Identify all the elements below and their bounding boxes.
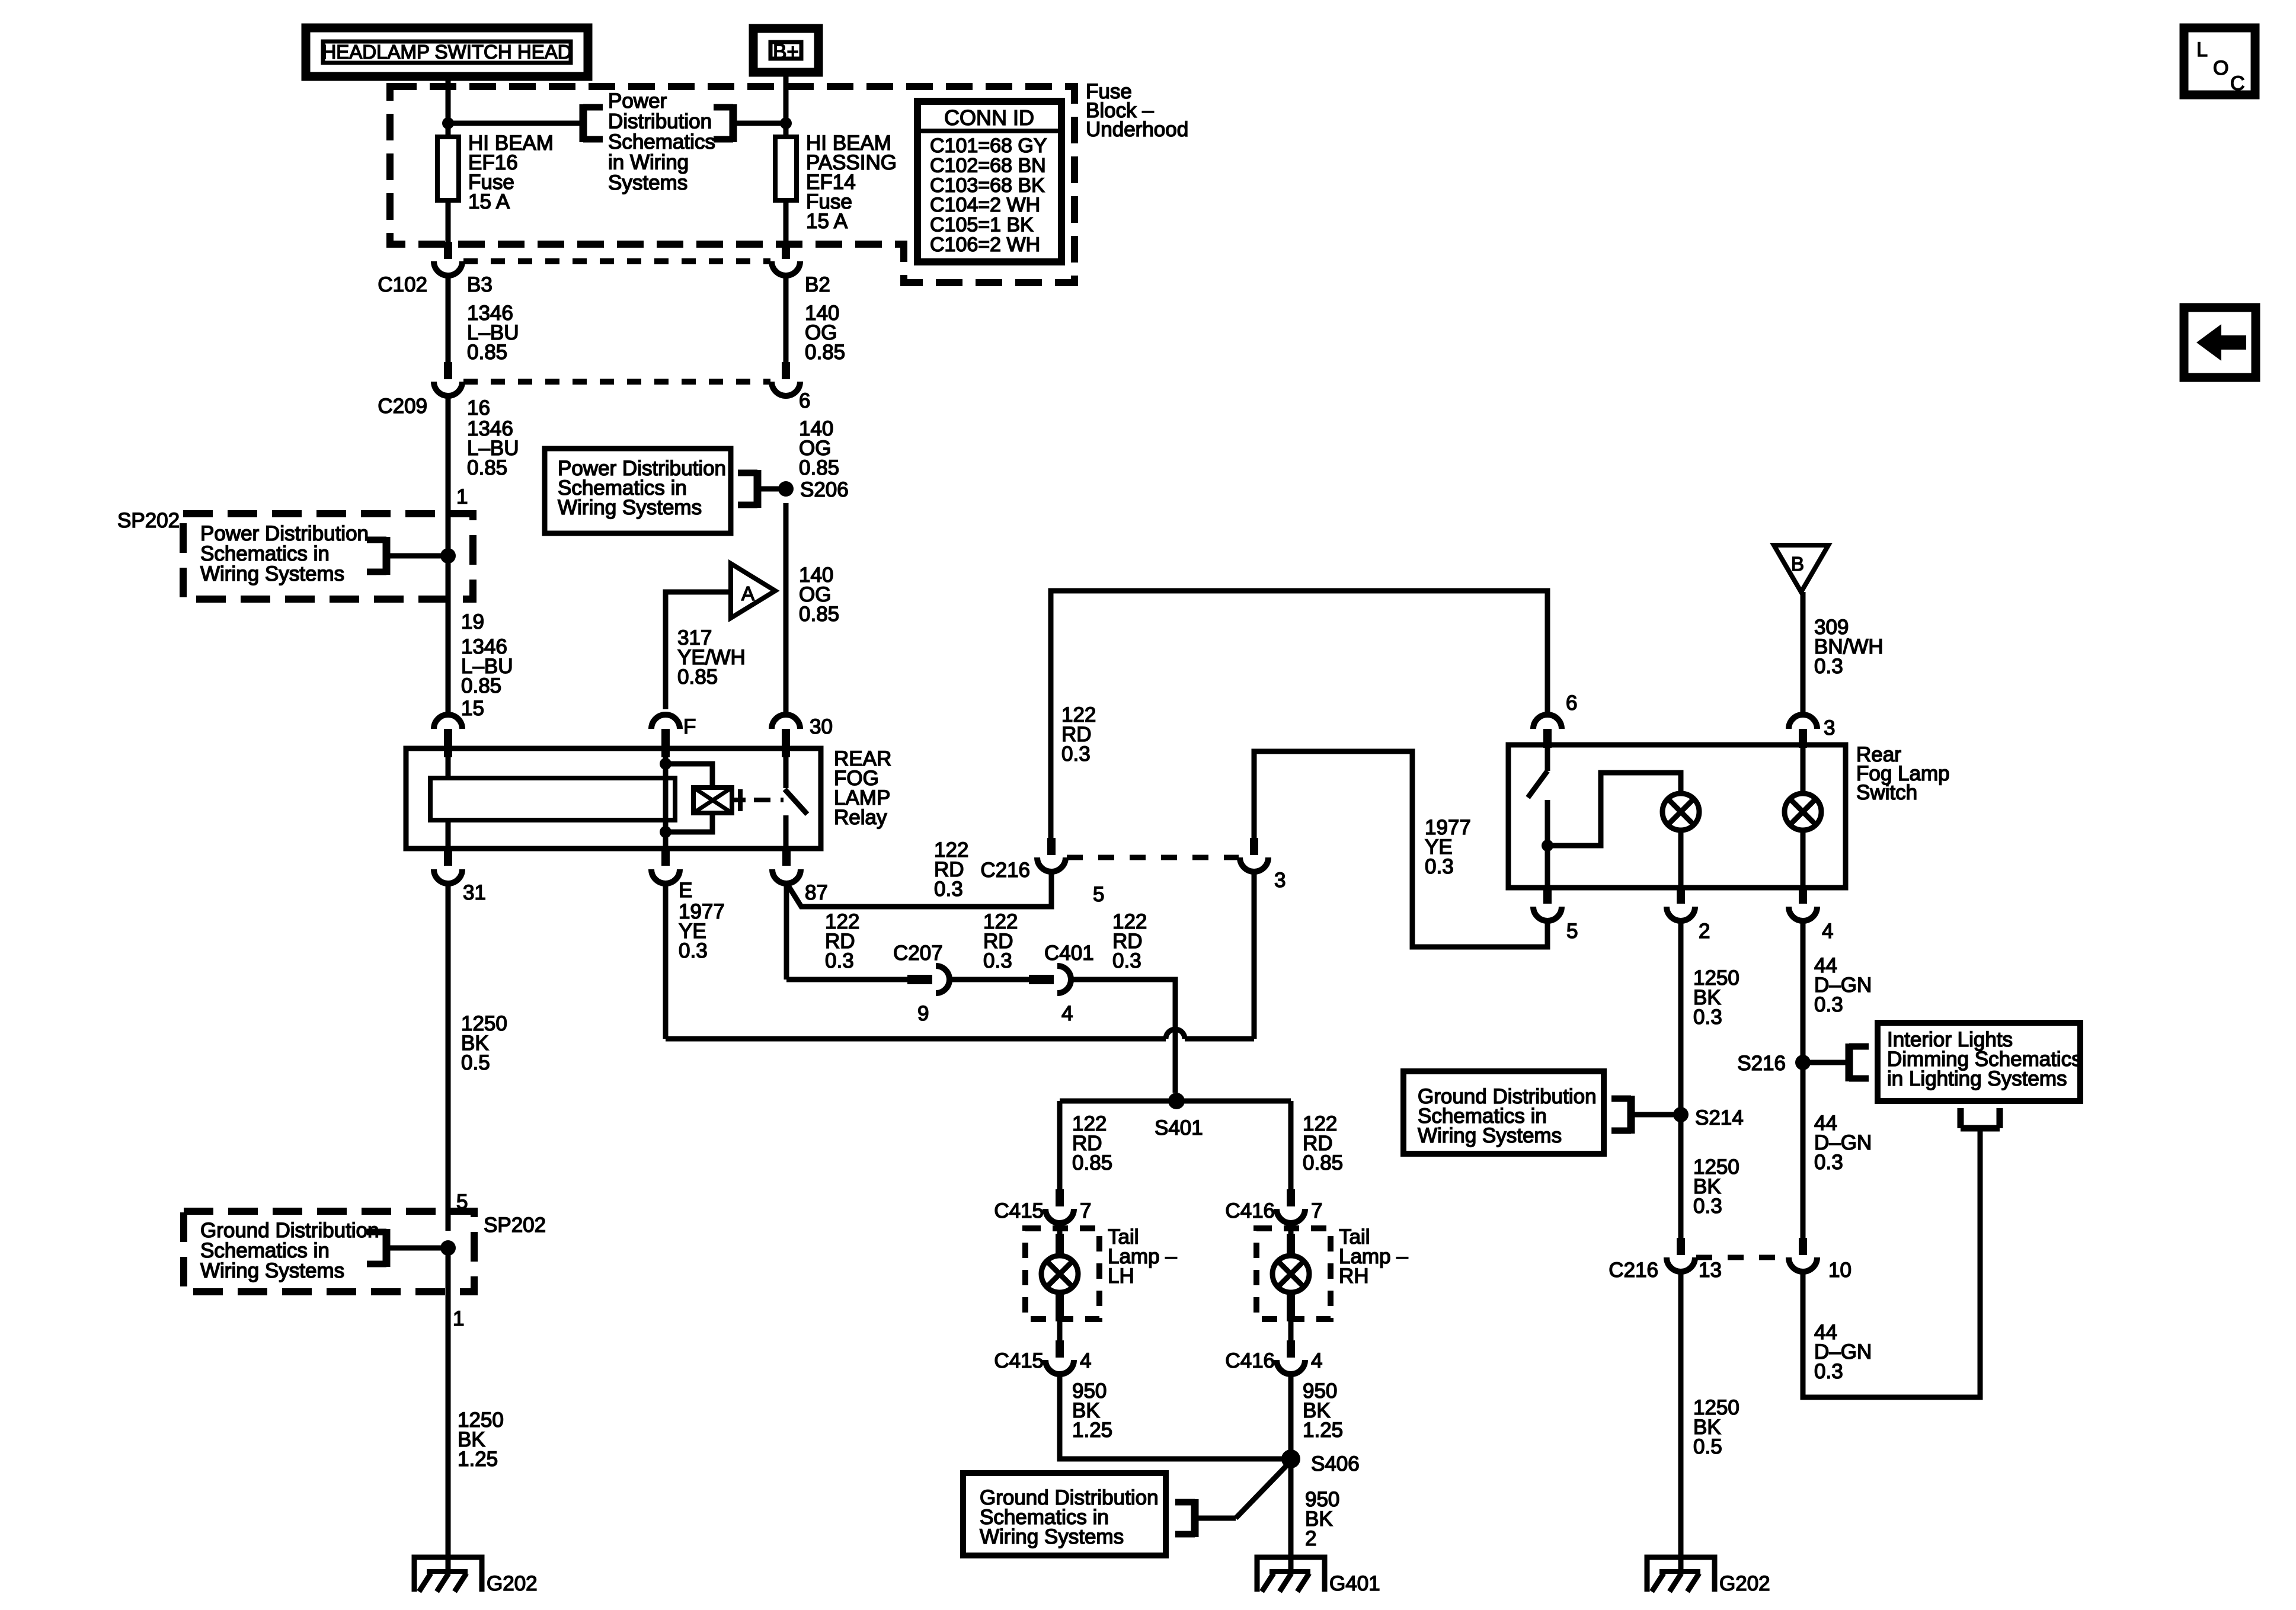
relay X box to bottom dot (666, 813, 712, 832)
wire label 1346 L-BU 0.85 (16 to SP202) (467, 417, 519, 479)
relay coil box (430, 778, 675, 820)
wire from callout bracket to EF14 feed (733, 121, 786, 126)
svg-text:0.85: 0.85 (805, 341, 845, 364)
wire label 122 RD 0.3 (before C207) (825, 910, 859, 972)
wire label 1250 BK 0.3 (S214 to C216) (1693, 1156, 1739, 1218)
svg-text:0.3: 0.3 (983, 949, 1012, 972)
switch box Rear Fog Lamp Switch (1508, 745, 1846, 888)
wire label 1346 L-BU 0.85 (19 to 15) (461, 635, 513, 697)
wire label 1346 L-BU 0.85 (B3 to C209) (467, 302, 519, 364)
svg-text:Wiring Systems: Wiring Systems (200, 562, 344, 585)
label 3 (switch) (1824, 716, 1835, 740)
label 1 (above SP202) (456, 485, 468, 508)
svg-text:0.85: 0.85 (799, 456, 839, 479)
svg-text:5: 5 (1093, 883, 1104, 906)
wire E to C216 pin 3 with hop over S401 feed (666, 1029, 1254, 1039)
wire bracket diagonal to S406 (1195, 1464, 1288, 1518)
connector cup relay pin F (651, 715, 680, 757)
svg-text:0.3: 0.3 (1814, 1360, 1843, 1383)
wire switch pin2 down to C216 13 (1678, 921, 1684, 1238)
svg-text:19: 19 (461, 610, 484, 633)
tail lamp LH bulb (1041, 1256, 1078, 1292)
label 1977 YE 0.3 (pin E) (679, 900, 725, 962)
svg-text:SP202: SP202 (484, 1214, 546, 1237)
svg-text:3: 3 (1274, 869, 1285, 892)
wire C216 13 to ground G202 (1678, 1272, 1684, 1571)
wire label 122 RD 0.3 (to switch 6) (1061, 703, 1096, 766)
wire label 122 RD 0.3 (after C401) (1112, 910, 1147, 972)
svg-text:Wiring Systems: Wiring Systems (980, 1525, 1124, 1548)
label SP202 (lower) (484, 1214, 546, 1237)
label 7 (C415) (1080, 1199, 1091, 1222)
wire C102 B2 to C209 6 (784, 276, 789, 362)
wire C209 16 down to splice SP202 (446, 396, 451, 556)
svg-text:B3: B3 (467, 273, 493, 296)
connector C216 dashed line pins 5-3 (1067, 855, 1239, 860)
svg-text:C207: C207 (893, 942, 943, 965)
svg-text:4: 4 (1822, 920, 1833, 943)
connector cup switch pin 3 (1789, 715, 1817, 748)
label 13 (1699, 1259, 1722, 1282)
wire up to C216 terminal 3 (1252, 872, 1257, 1039)
svg-text:SP202: SP202 (117, 509, 180, 532)
svg-text:A: A (741, 582, 754, 604)
wire S401 bus to C416 (1288, 1101, 1294, 1189)
back arrow icon (2184, 308, 2256, 377)
svg-text:RH: RH (1339, 1265, 1369, 1288)
label 2 (switch) (1699, 920, 1710, 943)
wire relay 31 to SP202 ground splice (446, 884, 451, 1231)
svg-text:0.3: 0.3 (934, 878, 963, 901)
svg-text:C102: C102 (378, 273, 427, 296)
wire SP202 to ground G202 (446, 1248, 451, 1571)
splice S401 and bus (1060, 1093, 1291, 1109)
svg-text:S406: S406 (1311, 1452, 1360, 1475)
svg-text:Relay: Relay (834, 806, 887, 829)
svg-text:1.25: 1.25 (1303, 1419, 1343, 1442)
svg-text:4: 4 (1061, 1002, 1073, 1025)
wire C207 to C401 (949, 977, 1029, 982)
label C102 (378, 273, 427, 296)
svg-text:C103=68 BK: C103=68 BK (930, 174, 1045, 197)
relay coil branch to X box (666, 764, 712, 788)
svg-text:0.85: 0.85 (467, 341, 507, 364)
wire label 122 RD 0.3 (before C401) (983, 910, 1018, 972)
svg-text:Switch: Switch (1856, 781, 1917, 804)
wire label 1250 BK 1.25 (458, 1409, 504, 1471)
wire from HEADLAMP SWITCH HEAD to fuse EF16 (446, 76, 451, 137)
label 3 (C216) (1274, 869, 1285, 892)
relay wire pin15 through coil (446, 748, 451, 849)
tail lamp RH dashed box (1256, 1228, 1331, 1319)
svg-text:15 A: 15 A (806, 210, 848, 233)
wire 87 to C207 (786, 977, 907, 982)
svg-text:S214: S214 (1695, 1106, 1744, 1129)
svg-text:G202: G202 (1719, 1572, 1770, 1595)
label 4 (switch) (1822, 920, 1833, 943)
fuse block dashed outline (Fuse Block - Underhood) (390, 87, 1075, 283)
wire label 1250 BK 0.5 (to G202) (1693, 1396, 1739, 1458)
svg-text:C101=68 GY: C101=68 GY (930, 135, 1047, 157)
connector cup switch pin 5 (1533, 888, 1562, 921)
wire from B+ to fuse EF14 (784, 72, 789, 137)
connector C102 terminal B3 (434, 242, 462, 276)
connector cup switch pin 4 (1789, 888, 1817, 921)
wire label 122 RD 0.85 (C415) (1072, 1112, 1112, 1174)
svg-text:6: 6 (1566, 692, 1577, 715)
connector cup relay pin 30 (772, 715, 800, 757)
svg-text:0.3: 0.3 (1061, 742, 1091, 766)
power feed box B+ (753, 28, 818, 72)
in-line connector C401 terminal 4 (1029, 942, 1094, 1025)
svg-text:Systems: Systems (608, 171, 687, 194)
label 5 (SP202) (456, 1190, 468, 1214)
wire relay pin F up and right to triangle A (666, 592, 731, 709)
svg-text:C105=1 BK: C105=1 BK (930, 214, 1034, 236)
label B3 (467, 273, 493, 296)
svg-text:Wiring Systems: Wiring Systems (1418, 1124, 1562, 1147)
svg-text:0.5: 0.5 (461, 1051, 490, 1074)
svg-text:Underhood: Underhood (1086, 118, 1188, 141)
svg-text:Wiring Systems: Wiring Systems (558, 496, 702, 519)
wire C415 7 into lamp (1056, 1223, 1064, 1256)
connector C216 terminal 10 (1789, 1238, 1817, 1272)
wire switch pin4 down to C216 10 (1801, 921, 1806, 1238)
switch lower contact (1545, 800, 1550, 888)
off-page triangle A (731, 564, 775, 618)
svg-text:0.85: 0.85 (1072, 1151, 1112, 1174)
wire bracket to splice SP202 (386, 553, 448, 559)
label 6 (switch) (1566, 692, 1577, 715)
wire label 1977 YE 0.3 (switch 5) (1425, 816, 1471, 878)
svg-text:Schematics: Schematics (608, 130, 715, 153)
wire S406 to ground G401 (1288, 1459, 1294, 1571)
svg-text:0.3: 0.3 (1814, 1151, 1843, 1174)
label 7 (C416) (1311, 1199, 1322, 1222)
connector C416 terminal 4 (1277, 1340, 1305, 1374)
relay coil feed wire pin F (663, 748, 669, 849)
wire lamp RH to C416 4 (1287, 1293, 1295, 1340)
svg-text:0.3: 0.3 (1814, 655, 1843, 678)
locator icon LOC (2184, 28, 2255, 95)
svg-text:0.3: 0.3 (1112, 949, 1141, 972)
svg-text:B: B (1791, 553, 1804, 575)
wire label 1250 BK 0.5 (pin31) (461, 1012, 507, 1074)
junction dot on EF14 feed (780, 117, 792, 129)
svg-text:0.85: 0.85 (461, 674, 501, 697)
switch indicator lamp 2 (1785, 793, 1821, 830)
label 31 (463, 881, 486, 904)
label Power Distribution Schematics in Wiring Systems (fuse block) (608, 89, 715, 194)
wire C416 4 to S406 (1288, 1374, 1294, 1459)
splice dot SP202 ground (440, 1240, 456, 1256)
splice dot SP202 (440, 548, 456, 564)
wire C216 3 to switch pin 5 run (1254, 751, 1547, 947)
wire label 950 BK 1.25 (C416) (1303, 1379, 1343, 1442)
splice SP202 ground dashed box (184, 1211, 474, 1292)
wire label 140 OG 0.85 (6 to S206) (799, 417, 839, 479)
wire label 140 OG 0.85 (S206 to 30) (799, 564, 839, 626)
connector C216 terminal 5 (1037, 838, 1066, 872)
svg-text:31: 31 (463, 881, 486, 904)
junction dot on EF16 feed (442, 117, 454, 129)
callout bracket SP202 (367, 537, 386, 575)
svg-text:in Lighting Systems: in Lighting Systems (1887, 1067, 2067, 1090)
wire label 44 D-GN 0.3 (S216 to C216) (1814, 1112, 1872, 1174)
svg-text:0.3: 0.3 (1814, 993, 1843, 1016)
label 4 (C415) (1080, 1349, 1091, 1372)
switch pin3 wire to lamp 2 (1801, 745, 1806, 793)
svg-text:C416: C416 (1225, 1349, 1275, 1372)
svg-text:4: 4 (1311, 1349, 1322, 1372)
label 15 (461, 697, 484, 720)
connector cup relay pin E (651, 849, 680, 884)
label 10 (1828, 1259, 1851, 1282)
wire C416 7 into lamp (1287, 1223, 1295, 1256)
svg-text:5: 5 (1566, 920, 1578, 943)
label Fuse Block - Underhood (1086, 80, 1188, 141)
connector cup relay pin 31 (434, 849, 462, 884)
wire label 1250 BK 0.3 (pin2) (1693, 966, 1739, 1029)
wire label 122 RD 0.3 (87 to C216 5) (934, 838, 968, 901)
wire label 44 D-GN 0.3 (pin4) (1814, 954, 1872, 1016)
label Tail Lamp - LH (1108, 1225, 1177, 1288)
callout bracket Interior Lights (1849, 1044, 1869, 1081)
wire S401 bus to C415 (1057, 1101, 1063, 1189)
relay armature link (732, 789, 784, 811)
svg-text:0.3: 0.3 (679, 939, 708, 962)
svg-text:Wiring Systems: Wiring Systems (200, 1259, 344, 1282)
splice S206 (778, 478, 849, 501)
label 5 (C216) (1093, 883, 1104, 906)
svg-text:0.85: 0.85 (799, 603, 839, 626)
svg-text:C104=2 WH: C104=2 WH (930, 194, 1040, 216)
svg-text:S216: S216 (1737, 1052, 1786, 1075)
svg-text:0.3: 0.3 (1693, 1195, 1722, 1218)
wire from EF16 feed to callout bracket (448, 121, 583, 126)
relay coil junction dot bottom (660, 826, 671, 838)
svg-text:0.85: 0.85 (677, 665, 718, 689)
splice S214 (1673, 1106, 1744, 1129)
in-line connector C207 terminal 9 (893, 942, 949, 1025)
connector cup switch pin 6 (1533, 715, 1562, 748)
connector C216 terminal 13 (1667, 1238, 1695, 1272)
label C416 (7) (1225, 1199, 1275, 1222)
connector C102 dashed line (463, 258, 770, 264)
connector C209 terminal 6 (772, 362, 800, 396)
tail lamp LH dashed box (1025, 1228, 1099, 1319)
label 4 (C416) (1311, 1349, 1322, 1372)
svg-text:B+: B+ (773, 40, 799, 63)
connector C102 terminal B2 (772, 242, 800, 276)
wire label 44 D-GN 0.3 (pin10) (1814, 1321, 1872, 1383)
off-page triangle B (1774, 545, 1828, 592)
wire S216 to callout bracket (1803, 1060, 1849, 1065)
callout bracket to S406 (1175, 1499, 1195, 1537)
callout bracket under Interior Lights box (1961, 1108, 2000, 1128)
svg-text:Power: Power (608, 89, 667, 113)
svg-text:2: 2 (1305, 1527, 1316, 1550)
connector C209 terminal 16 (434, 362, 462, 396)
wire C415 4 to S406 (1060, 1374, 1284, 1459)
label C216 (pin13) (1609, 1259, 1658, 1282)
ground G401 (1257, 1557, 1380, 1595)
svg-text:G202: G202 (487, 1572, 538, 1595)
svg-text:1.25: 1.25 (1072, 1419, 1112, 1442)
label C416 (4) (1225, 1349, 1275, 1372)
label 87 (805, 881, 828, 904)
callout box Ground Distribution Schematics (S406) (963, 1473, 1166, 1555)
svg-text:S401: S401 (1155, 1116, 1203, 1140)
svg-text:16: 16 (467, 396, 490, 420)
svg-text:C216: C216 (1609, 1259, 1658, 1282)
svg-text:C209: C209 (378, 395, 427, 418)
wire label 950 BK 2 (1305, 1488, 1339, 1550)
svg-text:S206: S206 (800, 478, 849, 501)
svg-text:C102=68 BN: C102=68 BN (930, 154, 1046, 177)
svg-text:10: 10 (1828, 1259, 1851, 1282)
label Rear Fog Lamp Switch (1856, 743, 1950, 804)
svg-text:2: 2 (1699, 920, 1710, 943)
svg-text:C415: C415 (994, 1349, 1044, 1372)
fuse EF14 (775, 132, 897, 233)
connector C216 dashed line pins 13-10 (1696, 1255, 1787, 1260)
callout box Power Distribution Schematics (S206) (545, 449, 731, 533)
svg-text:0.85: 0.85 (1303, 1151, 1343, 1174)
label S401 (1155, 1116, 1203, 1140)
wire triangle B to switch pin 3 (1801, 592, 1806, 715)
svg-text:0.85: 0.85 (467, 456, 507, 479)
svg-text:B2: B2 (805, 273, 830, 296)
svg-text:13: 13 (1699, 1259, 1722, 1282)
svg-text:87: 87 (805, 881, 828, 904)
fuse EF16 (437, 132, 554, 213)
label F (683, 715, 696, 738)
splice S406 (1281, 1449, 1360, 1475)
switch blade pivot (1545, 745, 1550, 771)
svg-text:15: 15 (461, 697, 484, 720)
svg-text:3: 3 (1824, 716, 1835, 740)
switch internal wire to indicator lamp (1547, 773, 1681, 846)
wire fuse EF14 to connector C102 B2 (784, 200, 789, 259)
svg-text:0.3: 0.3 (1425, 855, 1454, 878)
svg-text:O: O (2213, 57, 2228, 79)
svg-text:15 A: 15 A (468, 190, 510, 213)
label C209 (378, 395, 427, 418)
component box HEADLAMP SWITCH HEAD (306, 28, 588, 76)
svg-text:CONN ID: CONN ID (944, 105, 1034, 130)
wire 87 diagonal to C216-5 run (788, 872, 1051, 907)
svg-text:C: C (2230, 72, 2245, 95)
callout bracket to S214 (1611, 1096, 1631, 1134)
svg-text:9: 9 (917, 1002, 929, 1025)
callout box Interior Lights Dimming Schematics (1878, 1023, 2082, 1101)
wire bracket to S214 (1631, 1112, 1681, 1118)
wire SP202 to relay pin 15 (446, 556, 451, 715)
label E (679, 879, 692, 902)
label B2 (805, 273, 830, 296)
tail lamp RH bulb (1272, 1256, 1309, 1292)
connector cup relay pin 87 (772, 849, 801, 884)
wire label 122 RD 0.85 (C416) (1303, 1112, 1343, 1174)
label 19 (461, 610, 484, 633)
label Tail Lamp - RH (1339, 1225, 1408, 1288)
callout bracket to S206 (738, 470, 757, 508)
svg-text:G401: G401 (1329, 1572, 1380, 1595)
svg-text:1.25: 1.25 (458, 1448, 498, 1471)
wire bracket to SP202 ground splice (386, 1246, 448, 1251)
label 1 (below SP202) (453, 1307, 464, 1330)
label C415 (7) (994, 1199, 1044, 1222)
relay coil junction dot top (660, 758, 671, 770)
svg-text:HEADLAMP SWITCH HEAD: HEADLAMP SWITCH HEAD (322, 41, 571, 63)
label REAR FOG LAMP Relay (834, 747, 891, 829)
svg-text:0.3: 0.3 (825, 949, 854, 972)
connector C209 dashed line (463, 379, 770, 385)
splice S216 (1737, 1052, 1811, 1075)
label C216 (pin5) (980, 859, 1030, 882)
connector C216 terminal 3 (1240, 838, 1268, 872)
wire C216 10 down and to Interior Lights box (1803, 1128, 1980, 1397)
svg-text:1: 1 (453, 1307, 464, 1330)
connector cup switch pin 2 (1667, 888, 1695, 921)
wire fuse EF16 to connector C102 (446, 200, 451, 259)
svg-text:in Wiring: in Wiring (608, 151, 689, 174)
wire S206 to relay pin 30 (784, 503, 789, 715)
wire label 950 BK 1.25 (C415) (1072, 1379, 1112, 1442)
connector C415 terminal 4 (1045, 1340, 1074, 1374)
switch blade (1528, 771, 1547, 798)
svg-text:30: 30 (810, 715, 833, 738)
svg-text:LH: LH (1108, 1265, 1134, 1288)
switch lamp2 to pin 4 (1801, 830, 1806, 888)
switch lamp1 to pin 2 (1678, 830, 1684, 888)
callout box Ground Distribution Schematics (S214) (1403, 1071, 1604, 1154)
wire label 317 YE/WH 0.85 (677, 626, 746, 689)
svg-text:Distribution: Distribution (608, 110, 712, 133)
svg-text:4: 4 (1080, 1349, 1091, 1372)
svg-text:F: F (683, 715, 696, 738)
wire C401 to S401 (1071, 980, 1175, 1093)
wire C102 B3 to C209 16 (446, 276, 451, 362)
svg-text:0.5: 0.5 (1693, 1435, 1722, 1458)
switch indicator lamp 1 (1662, 793, 1699, 830)
wire 87 down branch (784, 884, 789, 980)
label 6 (C209) (799, 389, 810, 412)
svg-text:7: 7 (1080, 1199, 1091, 1222)
svg-text:C106=2 WH: C106=2 WH (930, 233, 1040, 256)
relay switch contact from pin 30 (784, 748, 789, 788)
svg-text:C216: C216 (980, 859, 1030, 882)
label 16 (467, 396, 490, 420)
label Ground Distribution Schematics (SP202) (200, 1219, 379, 1282)
connector cup relay pin 15 (434, 715, 462, 757)
splice SP202 dashed box (183, 514, 473, 599)
callout bracket SP202 ground (367, 1229, 386, 1267)
ground G202 left (414, 1557, 538, 1595)
relay switch blade (785, 789, 807, 814)
svg-text:L: L (2196, 39, 2208, 61)
relay switch lower contact to pin 87 (784, 815, 789, 849)
svg-text:E: E (679, 879, 692, 902)
connector C415 terminal 7 (1045, 1189, 1074, 1223)
wire bracket to splice S206 (757, 486, 786, 492)
relay X box (693, 788, 732, 813)
label 5 (switch) (1566, 920, 1578, 943)
switch internal junction dot (1542, 840, 1553, 852)
label Power Distribution Schematics (SP202) (200, 522, 369, 585)
wire label 309 BN/WH 0.3 (1814, 616, 1884, 678)
